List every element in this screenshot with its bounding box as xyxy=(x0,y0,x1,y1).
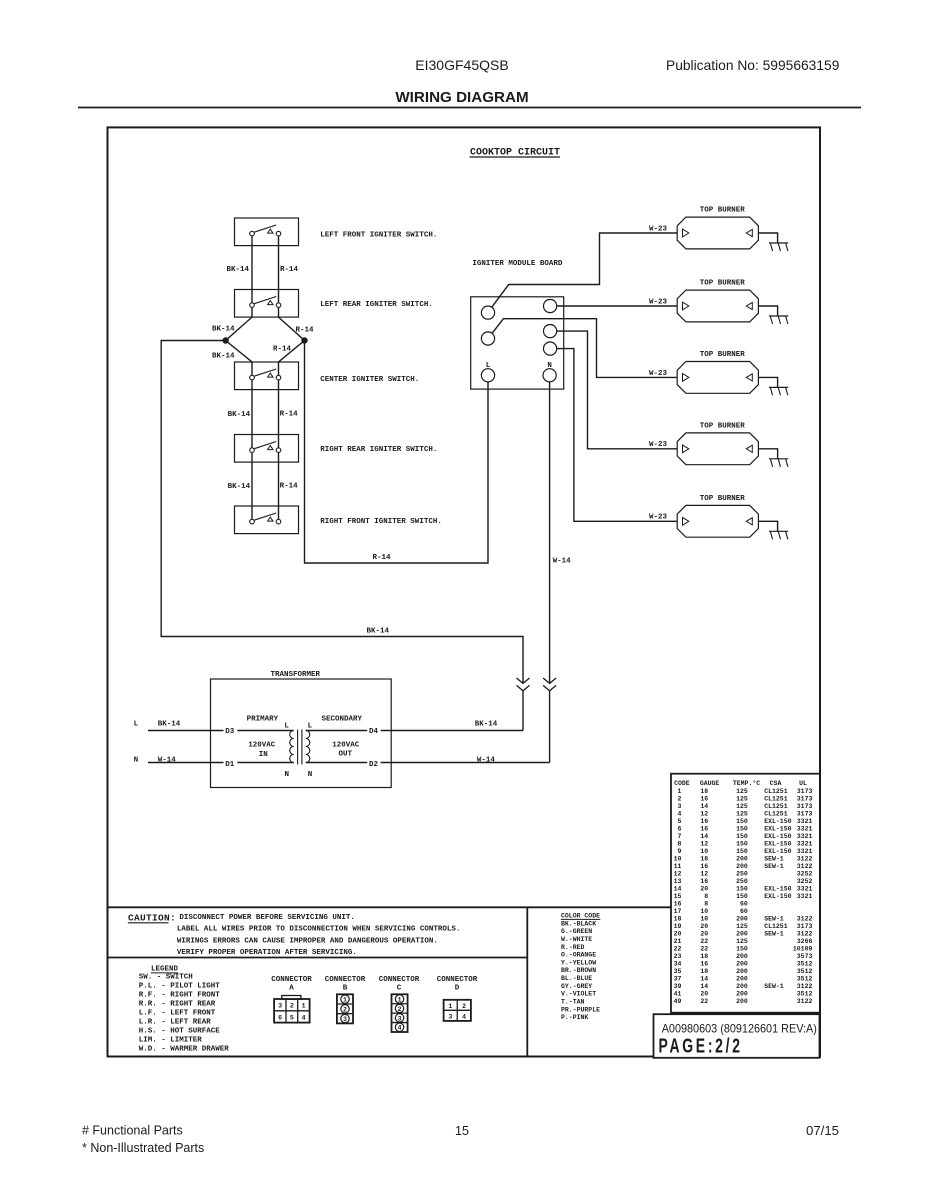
svg-text:O.-ORANGE: O.-ORANGE xyxy=(561,952,596,959)
module pin circles xyxy=(481,299,556,382)
svg-text:125: 125 xyxy=(736,788,748,795)
svg-text:150: 150 xyxy=(736,833,748,840)
wire W-23 from module pin to top burner 4 xyxy=(557,331,678,449)
svg-text:BK-14: BK-14 xyxy=(228,483,251,491)
svg-text:R.R. - RIGHT REAR: R.R. - RIGHT REAR xyxy=(139,1000,216,1008)
wire W-23 from module pin to top burner 5 xyxy=(557,349,678,522)
svg-text:IGNITER MODULE BOARD: IGNITER MODULE BOARD xyxy=(472,260,563,268)
svg-text:BK-14: BK-14 xyxy=(475,721,498,729)
svg-text:07/15: 07/15 xyxy=(806,1123,839,1138)
svg-text:3321: 3321 xyxy=(797,840,813,847)
svg-text:18: 18 xyxy=(674,915,682,922)
svg-text:200: 200 xyxy=(736,990,748,997)
svg-text:3252: 3252 xyxy=(797,870,813,877)
svg-text:3512: 3512 xyxy=(797,960,813,967)
svg-text:34: 34 xyxy=(674,960,682,967)
svg-text:200: 200 xyxy=(736,983,748,990)
color code entries xyxy=(561,920,600,1021)
svg-text:12: 12 xyxy=(700,840,708,847)
svg-text:UL: UL xyxy=(799,780,807,787)
svg-text:3512: 3512 xyxy=(797,975,813,982)
svg-text::: : xyxy=(170,912,176,923)
svg-text:19: 19 xyxy=(674,923,682,930)
supply line L / BK-14 into D3 xyxy=(148,730,224,732)
right rear igniter switch xyxy=(235,435,438,463)
svg-text:5: 5 xyxy=(677,818,681,825)
svg-text:14: 14 xyxy=(700,983,708,990)
svg-text:10: 10 xyxy=(674,855,682,862)
transformer secondary coil xyxy=(306,731,310,763)
svg-text:B: B xyxy=(343,985,348,993)
svg-text:CL1251: CL1251 xyxy=(764,795,788,802)
svg-text:37: 37 xyxy=(674,975,682,982)
svg-text:TRANSFORMER: TRANSFORMER xyxy=(271,671,321,679)
svg-text:R-14: R-14 xyxy=(373,554,392,562)
svg-text:R-14: R-14 xyxy=(280,411,299,419)
left front igniter switch xyxy=(235,218,438,246)
svg-text:L: L xyxy=(308,723,313,731)
svg-text:200: 200 xyxy=(736,855,748,862)
caution/legend horizontal divider xyxy=(108,957,528,959)
svg-text:4: 4 xyxy=(398,1025,402,1032)
svg-text:3122: 3122 xyxy=(797,983,813,990)
svg-text:22: 22 xyxy=(700,998,708,1005)
svg-text:5: 5 xyxy=(290,1014,294,1021)
svg-text:W.-WHITE: W.-WHITE xyxy=(561,936,592,943)
svg-text:C: C xyxy=(397,985,402,993)
svg-text:EXL-150: EXL-150 xyxy=(764,840,791,847)
svg-text:3173: 3173 xyxy=(797,788,813,795)
svg-text:P.L. - PILOT LIGHT: P.L. - PILOT LIGHT xyxy=(139,982,221,990)
svg-text:2: 2 xyxy=(462,1003,466,1010)
svg-text:EXL-150: EXL-150 xyxy=(764,833,791,840)
svg-text:3122: 3122 xyxy=(797,855,813,862)
svg-text:CONNECTOR: CONNECTOR xyxy=(271,976,312,984)
svg-text:250: 250 xyxy=(736,870,748,877)
svg-text:D: D xyxy=(455,985,460,993)
svg-text:23: 23 xyxy=(674,953,682,960)
svg-text:D1: D1 xyxy=(225,761,235,769)
svg-text:LEFT FRONT IGNITER SWITCH.: LEFT FRONT IGNITER SWITCH. xyxy=(320,232,437,240)
svg-text:49: 49 xyxy=(674,998,682,1005)
svg-text:PAGE:2/2: PAGE:2/2 xyxy=(659,1034,743,1057)
wire W-23 from module pin to top burner 1 xyxy=(492,233,677,307)
wire BK-14 from left front switch to left rear switch xyxy=(251,234,253,306)
svg-text:14: 14 xyxy=(674,885,682,892)
junction node left (BK-14) xyxy=(223,338,228,343)
svg-text:L: L xyxy=(134,721,139,729)
wire gauge table box xyxy=(671,774,820,1013)
svg-text:TOP BURNER: TOP BURNER xyxy=(700,351,746,359)
svg-text:BK.-BLACK: BK.-BLACK xyxy=(561,920,596,927)
svg-text:D4: D4 xyxy=(369,728,379,736)
svg-text:16: 16 xyxy=(674,900,682,907)
svg-text:VERIFY PROPER OPERATION AFTER: VERIFY PROPER OPERATION AFTER SERVICING. xyxy=(177,949,357,957)
svg-text:12: 12 xyxy=(700,810,708,817)
svg-text:CL1251: CL1251 xyxy=(764,923,788,930)
svg-text:16: 16 xyxy=(700,960,708,967)
svg-text:16: 16 xyxy=(700,878,708,885)
svg-text:4: 4 xyxy=(302,1014,306,1021)
svg-text:7: 7 xyxy=(677,833,681,840)
center igniter switch xyxy=(235,362,420,390)
top burner 5 xyxy=(677,495,758,537)
svg-text:3321: 3321 xyxy=(797,818,813,825)
svg-text:2: 2 xyxy=(677,795,681,802)
svg-text:20: 20 xyxy=(700,923,708,930)
igniter module board box xyxy=(471,297,564,389)
svg-text:SW. - SWITCH: SW. - SWITCH xyxy=(139,973,193,981)
wire BK-14 from right rear switch to right front switch xyxy=(251,450,253,521)
svg-text:2: 2 xyxy=(398,1006,402,1013)
svg-text:125: 125 xyxy=(736,810,748,817)
svg-text:60: 60 xyxy=(740,900,748,907)
svg-text:200: 200 xyxy=(736,960,748,967)
svg-text:8: 8 xyxy=(704,900,708,907)
svg-text:N: N xyxy=(547,362,552,370)
svg-text:125: 125 xyxy=(736,803,748,810)
svg-text:W-14: W-14 xyxy=(553,558,572,566)
svg-text:V.-VIOLET: V.-VIOLET xyxy=(561,991,596,998)
svg-text:Y.-YELLOW: Y.-YELLOW xyxy=(561,959,596,966)
svg-text:BL.-BLUE: BL.-BLUE xyxy=(561,975,592,982)
connector break chevrons on BK-14 wire xyxy=(517,678,530,683)
connector C pin block xyxy=(392,994,408,1032)
svg-text:W.D. - WARMER DRAWER: W.D. - WARMER DRAWER xyxy=(139,1045,230,1053)
svg-text:L: L xyxy=(486,362,491,370)
svg-text:3122: 3122 xyxy=(797,930,813,937)
svg-text:SEW-1: SEW-1 xyxy=(764,915,784,922)
svg-text:L: L xyxy=(284,723,289,731)
svg-text:15: 15 xyxy=(455,1124,469,1138)
svg-text:60: 60 xyxy=(740,908,748,915)
svg-text:R.F. - RIGHT FRONT: R.F. - RIGHT FRONT xyxy=(139,991,221,999)
svg-text:IN: IN xyxy=(259,751,268,759)
svg-text:W-14: W-14 xyxy=(158,757,177,765)
svg-text:RIGHT FRONT IGNITER SWITCH.: RIGHT FRONT IGNITER SWITCH. xyxy=(320,518,442,526)
svg-text:125: 125 xyxy=(736,938,748,945)
svg-text:3: 3 xyxy=(343,1016,347,1023)
svg-text:P.-PINK: P.-PINK xyxy=(561,1014,588,1021)
svg-text:8: 8 xyxy=(704,893,708,900)
svg-text:3173: 3173 xyxy=(797,810,813,817)
svg-text:41: 41 xyxy=(674,990,682,997)
supply line N / W-14 into D1 xyxy=(148,762,224,764)
svg-text:W-23: W-23 xyxy=(649,370,668,378)
svg-text:CL1251: CL1251 xyxy=(764,803,788,810)
svg-text:EXL-150: EXL-150 xyxy=(764,825,791,832)
wire W-14 from igniter module N terminal to transformer D2 xyxy=(549,382,551,684)
svg-text:LIM. - LIMITER: LIM. - LIMITER xyxy=(139,1036,203,1044)
svg-text:3122: 3122 xyxy=(797,863,813,870)
svg-text:GAUGE: GAUGE xyxy=(700,780,720,787)
svg-text:G.-GREEN: G.-GREEN xyxy=(561,928,592,935)
svg-text:12: 12 xyxy=(674,870,682,877)
svg-text:4: 4 xyxy=(462,1014,466,1021)
svg-text:GY.-GREY: GY.-GREY xyxy=(561,983,592,990)
svg-text:SEW-1: SEW-1 xyxy=(764,983,784,990)
svg-text:35: 35 xyxy=(674,968,682,975)
svg-text:CENTER IGNITER SWITCH.: CENTER IGNITER SWITCH. xyxy=(320,376,419,384)
svg-text:18: 18 xyxy=(700,855,708,862)
svg-text:CONNECTOR: CONNECTOR xyxy=(437,976,478,984)
svg-text:3173: 3173 xyxy=(797,923,813,930)
svg-text:SECONDARY: SECONDARY xyxy=(322,716,363,724)
svg-text:BK-14: BK-14 xyxy=(158,721,181,729)
svg-text:8: 8 xyxy=(677,840,681,847)
caution/legend right divider xyxy=(526,907,528,1056)
svg-text:BK-14: BK-14 xyxy=(212,353,235,361)
svg-text:EXL-150: EXL-150 xyxy=(764,848,791,855)
svg-text:PR.-PURPLE: PR.-PURPLE xyxy=(561,1006,600,1013)
svg-text:3512: 3512 xyxy=(797,990,813,997)
svg-text:CODE: CODE xyxy=(674,780,690,787)
svg-text:14: 14 xyxy=(700,833,708,840)
svg-text:120VAC: 120VAC xyxy=(332,741,360,749)
svg-text:BR.-BROWN: BR.-BROWN xyxy=(561,967,596,974)
svg-text:15: 15 xyxy=(674,893,682,900)
svg-text:4: 4 xyxy=(677,810,681,817)
svg-text:EI30GF45QSB: EI30GF45QSB xyxy=(415,57,508,73)
svg-text:6: 6 xyxy=(278,1014,282,1021)
svg-text:20: 20 xyxy=(700,930,708,937)
transformer primary coil xyxy=(290,731,294,763)
svg-text:1: 1 xyxy=(398,996,402,1003)
top burner 2 xyxy=(677,280,758,322)
svg-text:3266: 3266 xyxy=(797,938,813,945)
svg-text:3321: 3321 xyxy=(797,825,813,832)
svg-text:9: 9 xyxy=(677,848,681,855)
wire R-14 from left front switch to left rear switch xyxy=(278,234,280,306)
svg-text:200: 200 xyxy=(736,953,748,960)
svg-text:RIGHT REAR IGNITER SWITCH.: RIGHT REAR IGNITER SWITCH. xyxy=(320,446,437,454)
transformer box xyxy=(211,679,392,788)
svg-text:20: 20 xyxy=(700,990,708,997)
svg-text:BK-14: BK-14 xyxy=(367,628,390,636)
svg-text:DISCONNECT POWER BEFORE SERVIC: DISCONNECT POWER BEFORE SERVICING UNIT. xyxy=(179,914,355,922)
svg-text:L.F. - LEFT FRONT: L.F. - LEFT FRONT xyxy=(139,1009,216,1017)
svg-text:3173: 3173 xyxy=(797,795,813,802)
svg-text:N: N xyxy=(285,771,290,779)
svg-text:200: 200 xyxy=(736,998,748,1005)
svg-text:3321: 3321 xyxy=(797,893,813,900)
svg-text:CL1251: CL1251 xyxy=(764,788,788,795)
svg-text:LEFT REAR IGNITER SWITCH.: LEFT REAR IGNITER SWITCH. xyxy=(320,301,433,309)
svg-text:Publication No: 5995663159: Publication No: 5995663159 xyxy=(666,58,840,73)
svg-text:10: 10 xyxy=(700,908,708,915)
svg-text:N: N xyxy=(308,771,313,779)
svg-text:200: 200 xyxy=(736,975,748,982)
svg-text:CSA: CSA xyxy=(770,780,782,787)
svg-text:* Non-Illustrated Parts: * Non-Illustrated Parts xyxy=(82,1141,204,1155)
svg-text:10109: 10109 xyxy=(793,945,813,952)
secondary output D2 / W-14 xyxy=(306,762,367,764)
svg-text:H.S. - HOT SURFACE: H.S. - HOT SURFACE xyxy=(139,1027,221,1035)
svg-text:CAUTION: CAUTION xyxy=(128,912,170,923)
svg-text:WIRINGS ERRORS CAN CAUSE IMPRO: WIRINGS ERRORS CAN CAUSE IMPROPER AND DA… xyxy=(177,937,438,945)
svg-text:LABEL ALL WIRES PRIOR TO DISCO: LABEL ALL WIRES PRIOR TO DISCONNECTION W… xyxy=(177,926,461,934)
svg-text:1: 1 xyxy=(343,997,347,1004)
svg-text:BK-14: BK-14 xyxy=(228,411,251,419)
svg-text:150: 150 xyxy=(736,885,748,892)
svg-text:BK-14: BK-14 xyxy=(227,266,250,274)
svg-text:3: 3 xyxy=(398,1015,402,1022)
svg-text:2: 2 xyxy=(343,1006,347,1013)
svg-text:200: 200 xyxy=(736,968,748,975)
svg-text:125: 125 xyxy=(736,923,748,930)
wire gauge table header xyxy=(674,779,807,787)
svg-text:3: 3 xyxy=(278,1003,282,1010)
svg-text:1: 1 xyxy=(302,1003,306,1010)
ground wire and chassis ground for top burner 2 xyxy=(758,306,788,324)
svg-text:W-14: W-14 xyxy=(477,757,496,765)
svg-text:R-14: R-14 xyxy=(296,327,315,335)
svg-text:N: N xyxy=(134,757,139,765)
legend entries xyxy=(139,973,230,1053)
svg-text:3173: 3173 xyxy=(797,803,813,810)
svg-text:3: 3 xyxy=(448,1014,452,1021)
svg-text:3321: 3321 xyxy=(797,885,813,892)
svg-text:20: 20 xyxy=(674,930,682,937)
svg-text:W-23: W-23 xyxy=(649,298,668,306)
svg-text:14: 14 xyxy=(700,975,708,982)
svg-text:R-14: R-14 xyxy=(280,482,299,490)
wire BK-14 from center switch to right rear switch xyxy=(251,378,253,451)
transformer core xyxy=(297,730,299,765)
svg-text:250: 250 xyxy=(736,878,748,885)
ground wire and chassis ground for top burner 5 xyxy=(758,521,788,539)
svg-text:A: A xyxy=(289,985,294,993)
top burner 1 xyxy=(677,207,758,249)
wire R-14 from right rear switch to right front switch xyxy=(278,450,280,521)
svg-text:3321: 3321 xyxy=(797,848,813,855)
svg-text:16: 16 xyxy=(700,863,708,870)
svg-text:D3: D3 xyxy=(225,728,235,736)
svg-text:39: 39 xyxy=(674,983,682,990)
junction node right (R-14) xyxy=(302,338,307,343)
svg-text:OUT: OUT xyxy=(339,751,353,759)
svg-text:SEW-1: SEW-1 xyxy=(764,863,784,870)
svg-text:EXL-150: EXL-150 xyxy=(764,893,791,900)
svg-text:150: 150 xyxy=(736,893,748,900)
svg-text:3321: 3321 xyxy=(797,833,813,840)
wire R-14 from center switch to right rear switch xyxy=(278,378,280,451)
wire R-14 from right junction to igniter module L terminal xyxy=(305,341,489,564)
svg-text:BK-14: BK-14 xyxy=(212,326,235,334)
svg-text:150: 150 xyxy=(736,818,748,825)
svg-text:3: 3 xyxy=(677,803,681,810)
svg-text:2: 2 xyxy=(290,1003,294,1010)
svg-text:6: 6 xyxy=(677,825,681,832)
svg-text:COLOR CODE: COLOR CODE xyxy=(561,913,600,920)
svg-text:R.-RED: R.-RED xyxy=(561,944,585,951)
svg-text:120VAC: 120VAC xyxy=(248,741,276,749)
svg-text:3122: 3122 xyxy=(797,915,813,922)
ground wire and chassis ground for top burner 4 xyxy=(758,449,788,467)
svg-text:TEMP.°C: TEMP.°C xyxy=(733,779,760,787)
svg-text:W-23: W-23 xyxy=(649,225,668,233)
svg-text:L.R. - LEFT REAR: L.R. - LEFT REAR xyxy=(139,1018,212,1026)
svg-text:22: 22 xyxy=(700,945,708,952)
svg-text:17: 17 xyxy=(674,908,682,915)
svg-text:16: 16 xyxy=(700,795,708,802)
svg-text:CONNECTOR: CONNECTOR xyxy=(379,976,420,984)
svg-text:TOP BURNER: TOP BURNER xyxy=(700,423,746,431)
svg-text:TOP BURNER: TOP BURNER xyxy=(700,280,746,288)
connector B pin block xyxy=(337,994,353,1023)
wire gauge table rows xyxy=(674,788,813,1005)
svg-text:14: 14 xyxy=(700,803,708,810)
wire R-14 diamond from left rear switch to right junction xyxy=(279,305,305,378)
ground wire and chassis ground for top burner 3 xyxy=(758,377,788,395)
svg-text:TOP BURNER: TOP BURNER xyxy=(700,495,746,503)
connector D pin block xyxy=(444,1000,471,1021)
svg-text:1: 1 xyxy=(677,788,681,795)
svg-text:18: 18 xyxy=(700,788,708,795)
svg-text:10: 10 xyxy=(700,848,708,855)
svg-text:EXL-150: EXL-150 xyxy=(764,885,791,892)
secondary output D4 / BK-14 xyxy=(306,730,367,732)
svg-text:D2: D2 xyxy=(369,761,379,769)
svg-text:18: 18 xyxy=(700,953,708,960)
svg-text:200: 200 xyxy=(736,930,748,937)
right front igniter switch xyxy=(235,506,442,534)
svg-text:18: 18 xyxy=(700,968,708,975)
svg-text:125: 125 xyxy=(736,795,748,802)
svg-text:PRIMARY: PRIMARY xyxy=(247,716,279,724)
main diagram border xyxy=(108,127,821,1056)
connector A pin block xyxy=(274,996,310,1023)
svg-text:SEW-1: SEW-1 xyxy=(764,930,784,937)
caution box top border xyxy=(108,906,672,908)
svg-text:13: 13 xyxy=(674,878,682,885)
svg-text:3122: 3122 xyxy=(797,998,813,1005)
wire W-23 from module pin to top burner 2 xyxy=(557,305,678,307)
svg-text:21: 21 xyxy=(674,938,682,945)
connector break chevrons on W-14 wire xyxy=(543,678,556,683)
header horizontal rule xyxy=(78,107,861,109)
svg-text:150: 150 xyxy=(736,848,748,855)
svg-text:3512: 3512 xyxy=(797,968,813,975)
svg-text:200: 200 xyxy=(736,863,748,870)
svg-text:3252: 3252 xyxy=(797,878,813,885)
top burner 3 xyxy=(677,351,758,393)
svg-text:T.-TAN: T.-TAN xyxy=(561,999,585,1006)
svg-text:1: 1 xyxy=(448,1003,452,1010)
wire BK-14 diamond from left rear switch to left junction xyxy=(226,305,252,378)
svg-text:22: 22 xyxy=(700,938,708,945)
svg-text:200: 200 xyxy=(736,915,748,922)
svg-text:CONNECTOR: CONNECTOR xyxy=(325,976,366,984)
svg-text:CL1251: CL1251 xyxy=(764,810,788,817)
svg-text:R-14: R-14 xyxy=(280,266,299,274)
svg-text:22: 22 xyxy=(674,945,682,952)
svg-text:150: 150 xyxy=(736,825,748,832)
top burner 4 xyxy=(677,423,758,465)
wire BK-14 from left junction to transformer D4 (left loop) xyxy=(161,341,523,684)
svg-text:EXL-150: EXL-150 xyxy=(764,818,791,825)
svg-text:10: 10 xyxy=(700,915,708,922)
svg-text:150: 150 xyxy=(736,945,748,952)
wire W-23 from module pin to top burner 3 xyxy=(492,319,677,378)
svg-text:20: 20 xyxy=(700,885,708,892)
svg-text:WIRING DIAGRAM: WIRING DIAGRAM xyxy=(395,89,528,106)
svg-text:16: 16 xyxy=(700,818,708,825)
svg-text:150: 150 xyxy=(736,840,748,847)
svg-text:R-14: R-14 xyxy=(273,346,292,354)
left rear igniter switch xyxy=(235,290,433,318)
svg-text:3573: 3573 xyxy=(797,953,813,960)
